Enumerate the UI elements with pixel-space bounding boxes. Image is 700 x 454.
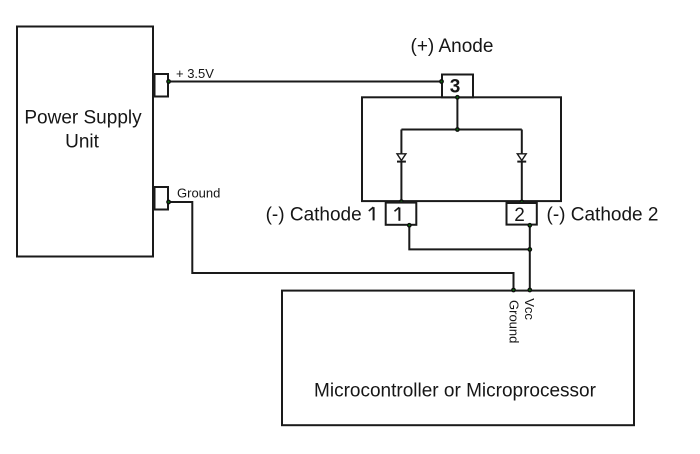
svg-text:(-) Cathode: (-) Cathode: [266, 204, 362, 225]
power supply unit box: [17, 27, 153, 257]
svg-text:Ground: Ground: [177, 186, 220, 201]
pin 3 box: [442, 75, 473, 98]
power supply unit label: [24, 108, 142, 153]
ground terminal tab: [155, 187, 169, 210]
junction dot at pin 1 bottom: [408, 224, 411, 227]
svg-text:Ground: Ground: [507, 300, 522, 343]
junction dot at ground tab: [167, 200, 170, 203]
svg-text:Microcontroller or Microproces: Microcontroller or Microprocessor: [314, 381, 597, 402]
LED package body: [362, 97, 561, 201]
LED D2: [517, 154, 526, 162]
microcontroller box: [282, 291, 634, 426]
junction dot at +3.5V tab: [167, 80, 170, 83]
svg-text:Vcc: Vcc: [522, 298, 537, 320]
pin 1 box: [386, 203, 417, 225]
wire pin 3 to anode node: [456, 97, 458, 129]
junction dot at pin 2 bottom: [528, 224, 531, 227]
svg-text:Power Supply: Power Supply: [24, 108, 142, 129]
junction dot at microcontroller vcc: [528, 288, 531, 291]
junction dot at microcontroller ground: [512, 288, 515, 291]
wire LED2 cathode to pin 2: [521, 162, 523, 203]
ground wire PSU to microcontroller: [169, 202, 514, 290]
junction dot at pin 1 top: [400, 200, 403, 203]
junction dot at pin 3 left: [440, 80, 443, 83]
(-) Cathode 1 label: [266, 204, 374, 225]
wire to LED1 anode: [400, 130, 402, 154]
junction dot vcc net: [528, 248, 531, 251]
svg-text:+ 3.5V: + 3.5V: [176, 66, 214, 81]
svg-text:(-) Cathode 2: (-) Cathode 2: [547, 204, 659, 225]
junction dot at pin 3 bottom: [456, 96, 459, 99]
+3.5V terminal tab: [155, 74, 169, 97]
svg-text:3: 3: [450, 77, 461, 98]
anode node horizontal wire: [401, 129, 521, 131]
junction dot at pin 2 top: [520, 200, 523, 203]
wire LED1 cathode to pin 1: [400, 162, 402, 202]
wire pin 1 to vcc net: [409, 226, 530, 250]
wire pin 2 to microcontroller vcc: [529, 226, 531, 290]
junction dot anode node: [456, 128, 459, 131]
wire to LED2 anode: [521, 130, 523, 154]
LED D1: [397, 154, 406, 162]
pin 1 label: [395, 207, 400, 220]
pin 2 box: [507, 203, 537, 225]
svg-text:(+) Anode: (+) Anode: [411, 36, 494, 57]
svg-text:2: 2: [514, 205, 525, 226]
svg-text:Unit: Unit: [65, 132, 100, 153]
wire +3.5V to pin 3: [169, 81, 442, 83]
